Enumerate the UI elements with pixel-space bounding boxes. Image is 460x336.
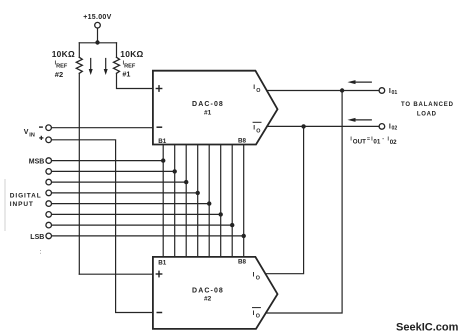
wire IO1 junction down to U2 IObar (266, 91, 342, 314)
current arrow 1 (89, 59, 93, 76)
svg-text:#2: #2 (55, 70, 63, 79)
terminal bit4 B4 (46, 145, 200, 257)
wire (78, 73, 80, 274)
svg-text:B1: B1 (158, 259, 167, 266)
svg-text:O: O (256, 314, 260, 320)
svg-text:I: I (253, 271, 255, 278)
terminal LSB B8 (46, 145, 246, 257)
faint scan artifact line (4, 179, 6, 231)
wire IO2 output (267, 125, 379, 127)
label U2 minus (157, 312, 163, 314)
power terminal +15V (95, 22, 101, 28)
op-amp U1 DAC-08 #1 (153, 71, 278, 145)
svg-text:I: I (253, 310, 255, 317)
svg-text:B8: B8 (238, 259, 247, 266)
svg-text:#2: #2 (204, 296, 212, 303)
terminal bit6 B6 (46, 145, 223, 257)
arrow left at IO2 (348, 118, 372, 122)
resistor R2 10K IREF #2 (76, 57, 82, 73)
junction (95, 40, 99, 44)
svg-text:IN: IN (29, 133, 35, 139)
terminal IO2 (379, 124, 385, 130)
wire IO2 junction down to U2 IO (265, 126, 303, 273)
svg-text:O: O (256, 88, 260, 94)
wire (116, 43, 118, 58)
junction on IO2 (301, 124, 305, 128)
svg-text:I: I (253, 84, 255, 91)
svg-text:O: O (256, 128, 260, 134)
label U1 minus (157, 126, 163, 128)
terminal MSB B1 (46, 145, 165, 257)
current arrow 2 (104, 59, 108, 76)
wire VIN- to U1 (52, 127, 153, 129)
terminal bit5 B5 (46, 145, 212, 257)
svg-text:V: V (24, 129, 29, 136)
svg-text:DAC-08: DAC-08 (192, 287, 224, 294)
terminal VIN- (46, 125, 52, 131)
terminal VIN+ (46, 137, 52, 143)
svg-text:REF: REF (55, 64, 68, 70)
svg-text:=: = (367, 137, 370, 143)
svg-text:01: 01 (373, 139, 380, 146)
svg-text:LSB: LSB (30, 234, 44, 241)
svg-text:10KΩ: 10KΩ (52, 49, 75, 59)
terminal bit2 B2 (46, 145, 177, 257)
label minus at VIN (39, 126, 43, 128)
svg-text:DAC-08: DAC-08 (192, 101, 224, 108)
label U2 plus (156, 271, 163, 278)
svg-text:#1: #1 (122, 69, 130, 78)
terminal bit3 B3 (46, 145, 189, 257)
terminal bit7 B7 (46, 145, 235, 257)
wire (79, 42, 116, 44)
wire (117, 73, 153, 88)
svg-text:-: - (382, 136, 384, 142)
svg-text:B8: B8 (238, 138, 247, 145)
svg-text:B1: B1 (158, 138, 167, 145)
svg-text:+15.00V: +15.00V (83, 14, 111, 21)
svg-text:DIGITAL: DIGITAL (10, 192, 42, 199)
op-amp U2 DAC-08 #2 (153, 257, 278, 329)
wire (97, 28, 99, 43)
svg-text::: : (40, 250, 42, 256)
svg-text:01: 01 (392, 90, 398, 96)
arrow left at IO1 (348, 80, 372, 84)
svg-text:02: 02 (392, 126, 398, 132)
svg-text:OUT: OUT (353, 138, 366, 145)
wire (78, 43, 80, 58)
svg-text:LOAD: LOAD (417, 111, 437, 117)
wire resistor2 to U2 plus (79, 273, 153, 275)
svg-text:O: O (256, 276, 260, 282)
svg-text:INPUT: INPUT (10, 201, 34, 208)
wire VIN+ to U2 minus (52, 140, 153, 313)
label plus at VIN (39, 136, 43, 140)
label U1 plus (156, 85, 163, 92)
svg-text:02: 02 (390, 139, 397, 146)
svg-text:MSB: MSB (29, 158, 45, 165)
svg-text:TO BALANCED: TO BALANCED (401, 102, 454, 108)
svg-text:SeekIC.com: SeekIC.com (396, 322, 459, 334)
terminal IO1 (379, 88, 385, 94)
wire IO1 output (267, 90, 379, 92)
label IOUT = I01 - I02 (350, 136, 397, 146)
svg-text:I: I (253, 124, 255, 131)
junction on IO1 (340, 88, 344, 92)
svg-text:#1: #1 (204, 110, 212, 117)
resistor R1 10K IREF #1 (114, 57, 120, 73)
svg-text:10KΩ: 10KΩ (120, 49, 143, 59)
